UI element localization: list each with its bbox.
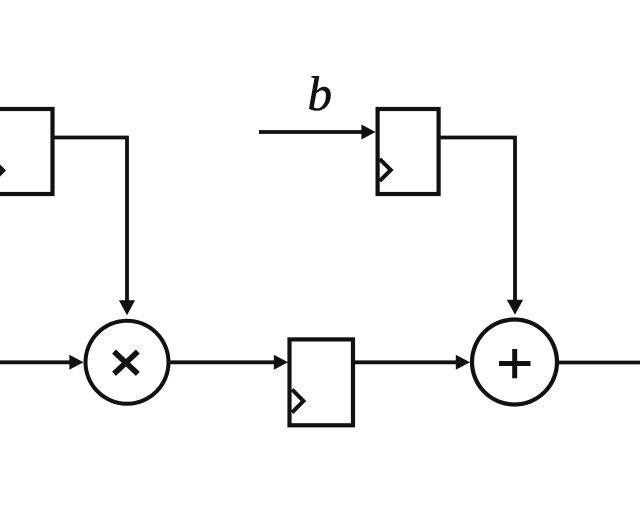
multiplier node (circle) (86, 321, 169, 404)
arrowhead into register R3 (274, 355, 288, 370)
register R3 (bottom-middle) (290, 339, 354, 425)
clock chevron of register R3 (292, 390, 303, 413)
adder + symbol (499, 349, 531, 378)
svg-text:b: b (308, 66, 333, 121)
register R2 (top-right) (378, 109, 439, 194)
wire multiplier to register R3 (171, 360, 277, 364)
adder node (circle) (472, 320, 557, 405)
wire from R2 to adder (right then down) (441, 138, 515, 302)
arrowhead into multiplier top (119, 300, 135, 315)
clock chevron of register R1 (0, 160, 3, 181)
arrowhead into adder left (456, 355, 470, 370)
wire register R3 to adder (354, 360, 458, 364)
arrowhead into adder top (507, 300, 523, 315)
arrowhead into multiplier left (69, 355, 83, 370)
register R1 (top-left, clipped at canvas edge) (0, 109, 53, 194)
wire input b (259, 130, 363, 134)
wire adder to right edge (557, 361, 640, 365)
wire main input (left edge to multiplier) (0, 360, 71, 364)
arrowhead into register R2 (361, 125, 375, 140)
multiplier × symbol (114, 352, 138, 374)
wire from R1 to multiplier (right then down) (54, 138, 127, 302)
clock chevron of register R2 (380, 159, 391, 181)
